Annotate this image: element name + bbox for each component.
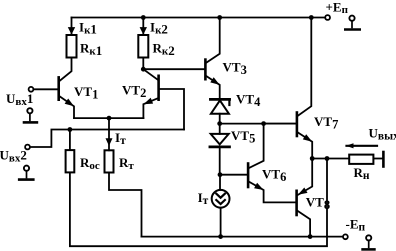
- svg-text:VT8: VT8: [306, 195, 330, 213]
- svg-text:VT6: VT6: [262, 167, 286, 185]
- svg-text:VT1: VT1: [74, 84, 98, 102]
- svg-text:VT2: VT2: [122, 83, 146, 101]
- svg-text:VT3: VT3: [223, 59, 247, 77]
- svg-text:VT5: VT5: [231, 128, 255, 146]
- svg-text:VT7: VT7: [314, 114, 338, 132]
- svg-text:VT4: VT4: [236, 92, 261, 110]
